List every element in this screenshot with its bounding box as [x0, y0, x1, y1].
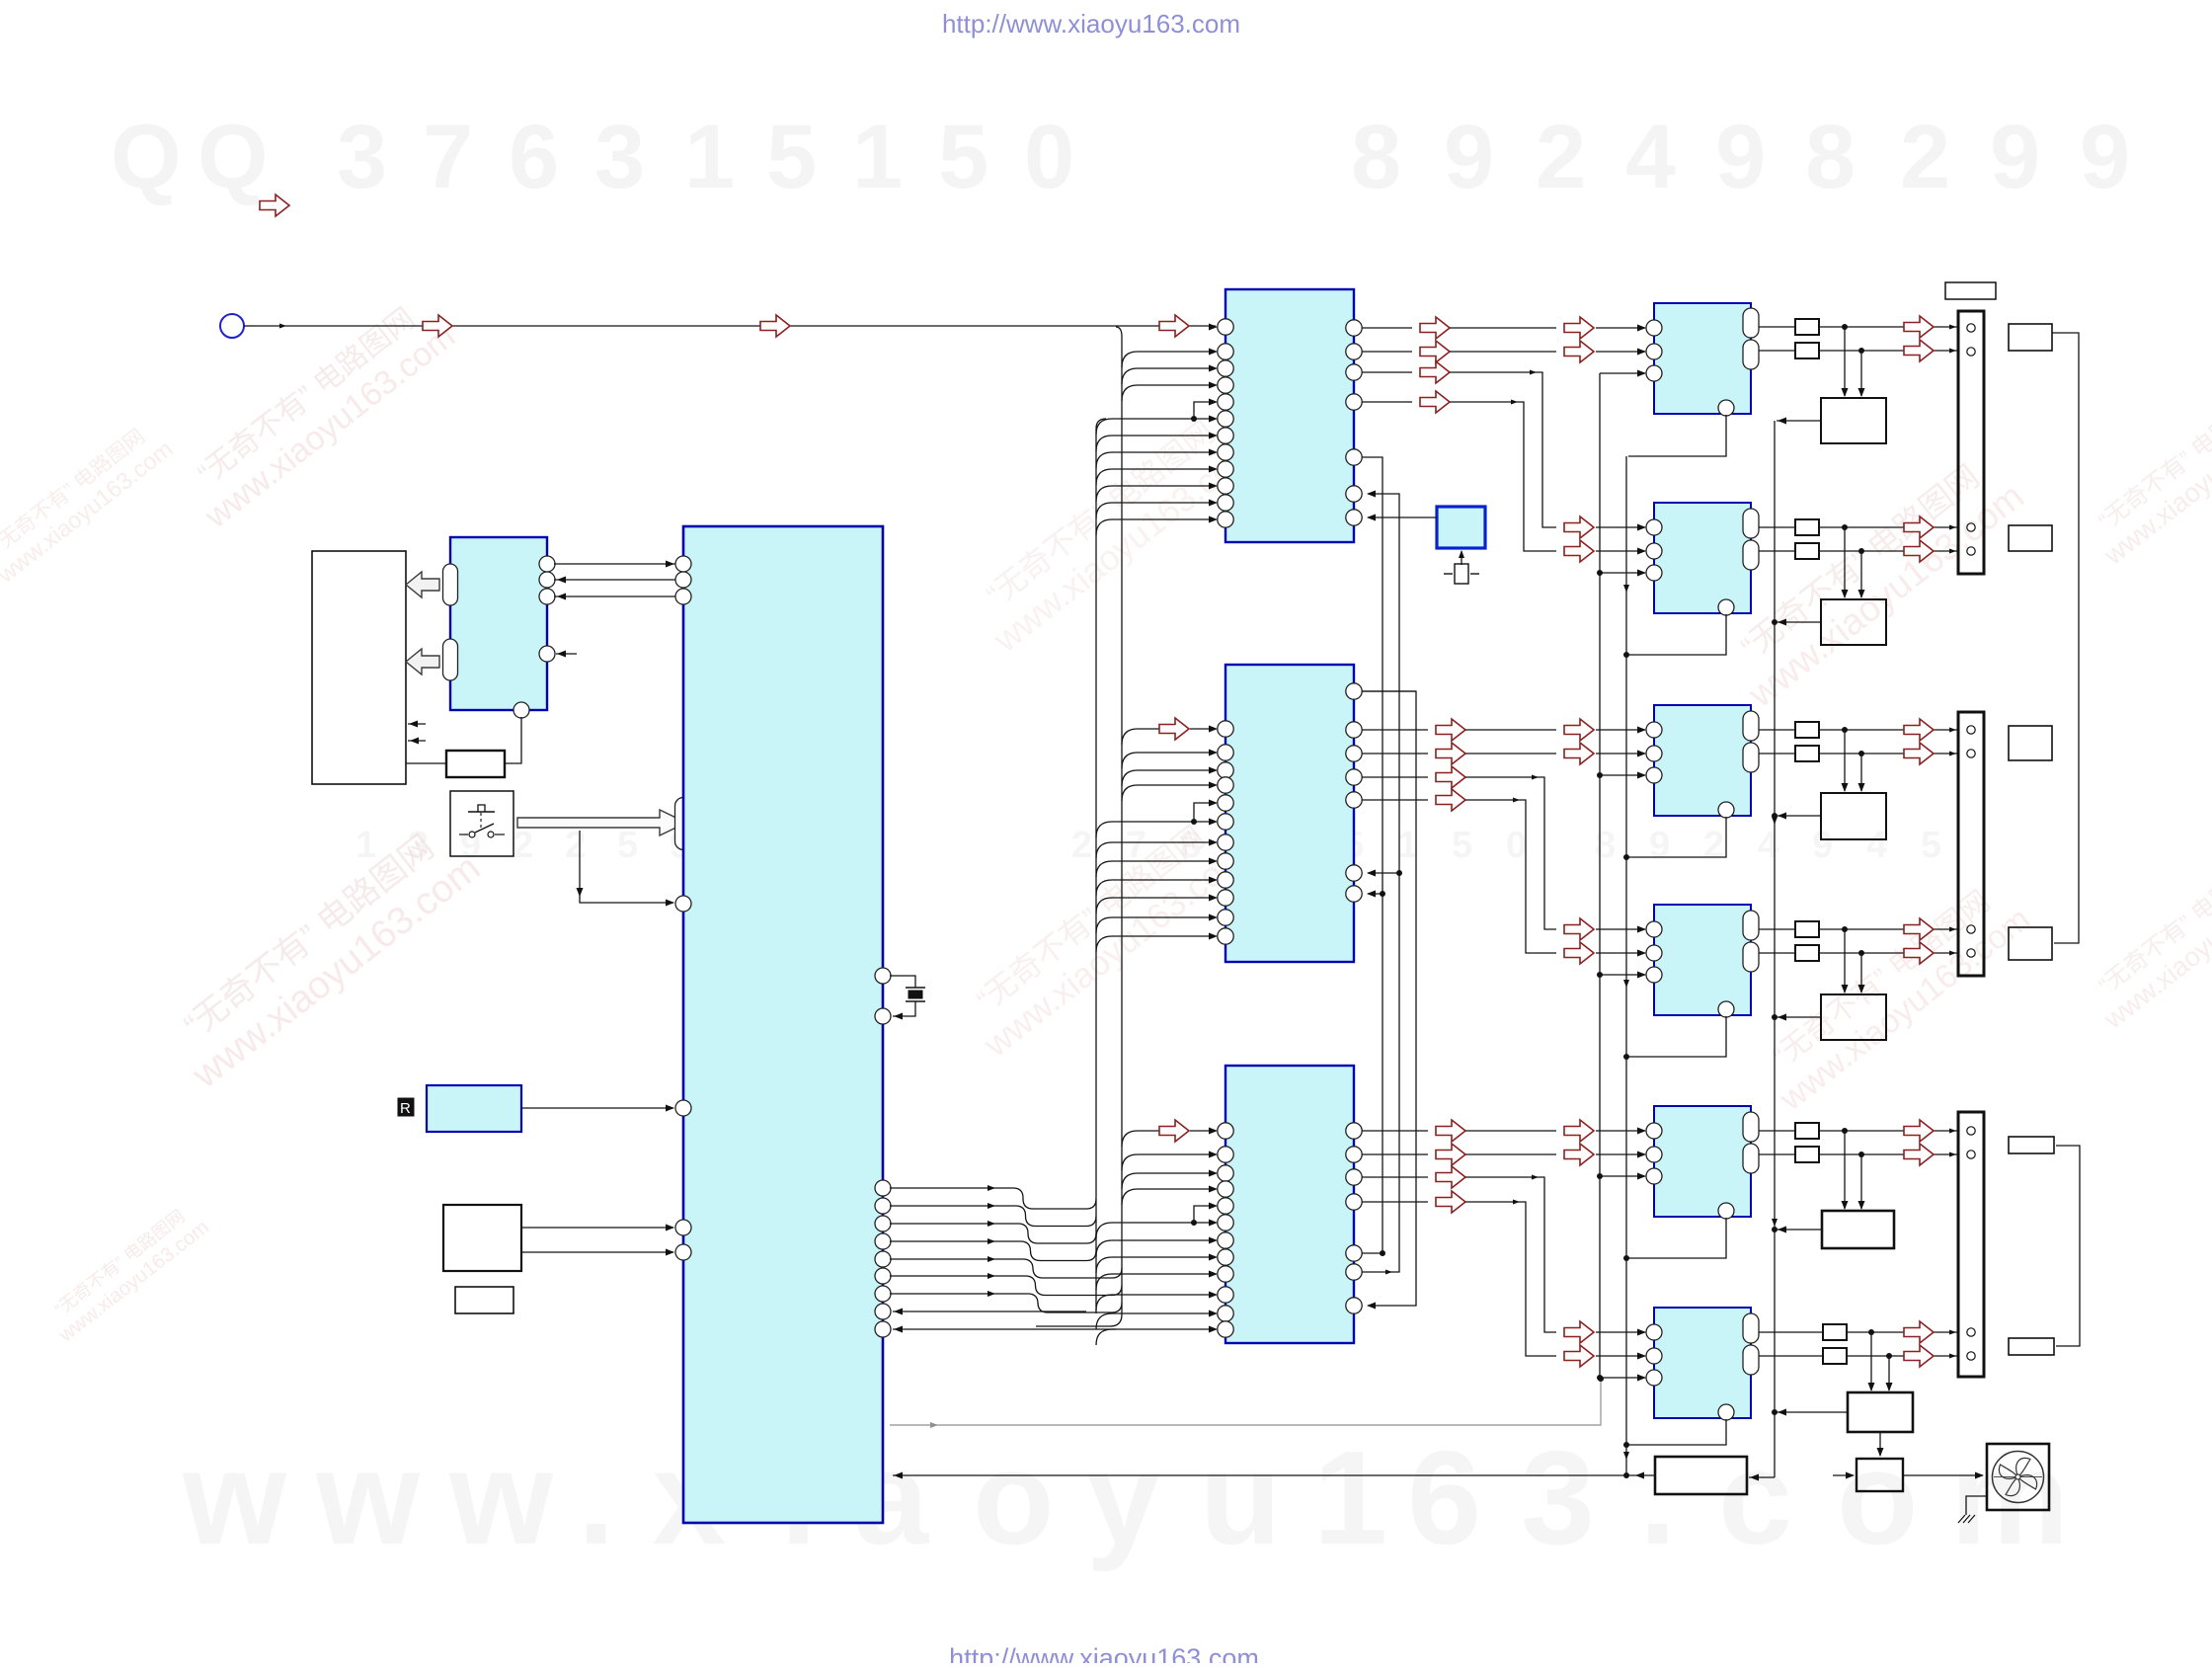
- IR receiver U3: [427, 1085, 521, 1132]
- wire ch4 out2b: [1819, 950, 1957, 956]
- LC filter ch5 a: [1795, 1123, 1819, 1139]
- ground: [1958, 1496, 1987, 1523]
- pin U2-5: [513, 702, 529, 718]
- PWM amp IC U9: [1654, 705, 1751, 816]
- arrow ch6 conn2: [1904, 1345, 1934, 1367]
- wire A out1: [1362, 317, 1556, 339]
- pin U9 out1: [1743, 711, 1759, 741]
- svg-text:1: 1: [355, 825, 376, 866]
- arrow ch2 in1: [1564, 516, 1594, 538]
- wire U2 to U1 data: [554, 561, 676, 568]
- wire key branch: [577, 831, 675, 907]
- svg-text:5: 5: [766, 107, 817, 207]
- LC filter ch6 b: [1823, 1348, 1847, 1364]
- wire ch4 out2a: [1759, 952, 1795, 954]
- bus riser B: [1116, 327, 1122, 1314]
- wire ch1 mute: [1600, 370, 1646, 377]
- wire fanctl to fan: [1903, 1472, 1984, 1479]
- wire ch6 sense2: [1886, 1356, 1893, 1391]
- arrow ch3 in1: [1564, 719, 1594, 741]
- wire ch5 sense1: [1842, 1131, 1849, 1210]
- svg-text:1: 1: [1397, 825, 1418, 866]
- svg-text:9: 9: [2080, 107, 2130, 207]
- audio DSP U6: [1225, 1066, 1354, 1343]
- wire ch5 mute: [1597, 1173, 1646, 1180]
- pins U4 left: [1218, 319, 1233, 527]
- wire ch5 in1: [1596, 1128, 1646, 1135]
- pin U9 out2: [1743, 743, 1759, 772]
- key command arrow: [517, 810, 686, 835]
- wire ch6 in2: [1596, 1353, 1646, 1360]
- arrow ch1 in2: [1564, 341, 1594, 362]
- wire ch5 in2: [1596, 1152, 1646, 1158]
- pins CN2: [1967, 726, 1975, 957]
- wire L-stub: [1191, 800, 1218, 826]
- svg-text:0: 0: [1506, 825, 1527, 866]
- pin U8 out1: [1743, 509, 1759, 538]
- LC filter ch1 b: [1795, 343, 1819, 358]
- wire relay2 ctl: [1772, 619, 1821, 626]
- PWM amp IC U7: [1654, 303, 1751, 414]
- bus relay collect: [1772, 421, 1777, 1477]
- wire ch6 out2b: [1847, 1353, 1957, 1359]
- svg-text:2: 2: [565, 825, 586, 866]
- wire ch3 mute: [1597, 772, 1646, 779]
- pin U1 L2: [675, 572, 691, 588]
- svg-text:1: 1: [1313, 1423, 1387, 1572]
- sub board S2: [455, 1287, 513, 1313]
- pin U1 bus in1: [875, 1304, 891, 1319]
- wire relay3 ctl: [1772, 813, 1821, 820]
- bus mute line: [1599, 373, 1601, 1378]
- pin U1 bus in2: [875, 1321, 891, 1337]
- svg-text:9: 9: [1990, 107, 2040, 207]
- svg-text:w: w: [448, 1423, 554, 1572]
- connector CN2: [1958, 712, 1984, 976]
- wire A out4: [1362, 391, 1556, 551]
- interface IC U2: [450, 537, 547, 710]
- speaker SP6: [2009, 1338, 2054, 1355]
- wire ch6 out2a: [1759, 1355, 1823, 1357]
- svg-text:5: 5: [1921, 825, 1941, 866]
- pin U11 out2: [1743, 1144, 1759, 1173]
- LC filter ch3 a: [1795, 722, 1819, 738]
- svg-text:4: 4: [1625, 107, 1676, 207]
- wire ch1 gnd: [1628, 415, 1726, 456]
- pins U1 data bus: [875, 1180, 891, 1302]
- wire ch1 out2b: [1819, 348, 1957, 354]
- arrow ch5 conn1: [1904, 1120, 1934, 1142]
- svg-text:w: w: [315, 1423, 421, 1572]
- wire C fb1: [1362, 1250, 1385, 1256]
- stub display in 1: [408, 721, 426, 728]
- wire ch1 out2a: [1759, 350, 1795, 352]
- svg-text:Q: Q: [197, 107, 269, 207]
- wire U1 to U2 data: [554, 577, 676, 584]
- arrow ch6 in1: [1564, 1321, 1594, 1343]
- wire B out5: [1362, 789, 1556, 953]
- wire ch6 gnd: [1623, 1419, 1726, 1448]
- wire ch4 gnd: [1623, 1016, 1726, 1060]
- LC filter ch3 b: [1795, 746, 1819, 761]
- arrow ch1 conn2: [1904, 340, 1934, 361]
- arrow ch3 conn2: [1904, 743, 1934, 764]
- arrow ch6 in2: [1564, 1345, 1594, 1367]
- arrow ch4 conn2: [1904, 942, 1934, 964]
- protection relay RY1: [1821, 398, 1886, 443]
- wire ch1 out1a: [1759, 326, 1795, 328]
- LC filter ch5 b: [1795, 1147, 1819, 1162]
- wire key col: [521, 1249, 674, 1256]
- pin U1 key pill: [675, 798, 692, 850]
- pin A1 arrowhead: [1209, 324, 1218, 331]
- wire ch6 sense1: [1868, 1332, 1875, 1391]
- wire ch3 sense1: [1842, 730, 1849, 792]
- pins U4 right: [1346, 320, 1362, 525]
- pin U10 out2: [1743, 942, 1759, 972]
- pin U11 gnd: [1718, 1203, 1734, 1219]
- LC filter ch2 a: [1795, 519, 1819, 535]
- pins U9 in: [1646, 722, 1662, 783]
- LC filter ch4 a: [1795, 921, 1819, 937]
- resistor R1: [446, 751, 505, 777]
- pin U10 out1: [1743, 911, 1759, 940]
- wire ch3 gnd: [1623, 817, 1726, 860]
- wire ch2 out1b: [1819, 524, 1957, 530]
- protection relay RY2: [1821, 599, 1886, 645]
- pin U12 gnd: [1718, 1404, 1734, 1420]
- svg-text:7: 7: [423, 107, 473, 207]
- svg-text:http://www.xiaoyu163.com: http://www.xiaoyu163.com: [949, 1643, 1259, 1663]
- LC filter ch1 a: [1795, 319, 1819, 335]
- pins U7 in: [1646, 320, 1662, 381]
- wire fanctl in: [1833, 1472, 1855, 1479]
- arrow ch2 conn1: [1904, 516, 1934, 538]
- IR badge: [398, 1098, 414, 1117]
- wire ch6 out1b: [1847, 1329, 1957, 1335]
- svg-text:9: 9: [1715, 107, 1766, 207]
- fan controller Q1: [1856, 1459, 1903, 1491]
- pin U8 out2: [1743, 540, 1759, 570]
- signal-flow arrow: [1159, 315, 1189, 337]
- arrow ch2 in2: [1564, 540, 1594, 562]
- pin U1 X2: [875, 1008, 891, 1024]
- pin U8 gnd: [1718, 599, 1734, 615]
- pin U2-1: [539, 556, 555, 572]
- wire relay6 ctl: [1772, 1409, 1848, 1416]
- bus fb2: [1362, 491, 1402, 1275]
- bus fb3: [1362, 691, 1416, 1310]
- svg-text:9: 9: [1812, 825, 1833, 866]
- clock oscillator X2: [1437, 507, 1485, 548]
- wire ch2 in2: [1596, 548, 1646, 555]
- svg-text:5: 5: [617, 825, 638, 866]
- wire B out1: [1362, 690, 1416, 692]
- wire key row: [521, 1225, 674, 1231]
- pin U7 gnd: [1718, 400, 1734, 416]
- wire ch3 sense2: [1858, 754, 1865, 792]
- wire U1 to PS1: [893, 1472, 1655, 1479]
- wire ch2 in1: [1596, 524, 1646, 531]
- connector label box: [1945, 282, 1996, 299]
- input jack J1: [220, 314, 255, 338]
- wire bus bottom: [1036, 1314, 1122, 1326]
- svg-text:4: 4: [1758, 825, 1778, 866]
- wire R1 to display: [406, 762, 446, 764]
- pin U12 out2: [1743, 1345, 1759, 1375]
- wire X2 to A: [1367, 515, 1437, 521]
- arrow ch3 conn1: [1904, 719, 1934, 741]
- pin U2-4: [539, 646, 555, 662]
- speaker SP2: [2009, 525, 2052, 551]
- svg-text:6: 6: [1407, 1423, 1481, 1572]
- svg-text:1: 1: [684, 107, 735, 207]
- PWM amp IC U12: [1654, 1308, 1751, 1418]
- wire B out4: [1362, 766, 1556, 929]
- svg-text:Q: Q: [111, 107, 182, 207]
- wire ch3 out2a: [1759, 753, 1795, 755]
- wire B out3: [1362, 743, 1556, 764]
- wire ch1 sense2: [1858, 351, 1865, 397]
- svg-text:o: o: [973, 1423, 1054, 1572]
- wire L-stub: [1191, 399, 1218, 423]
- wire ch5 sense2: [1858, 1154, 1865, 1210]
- arrow ch1 in1: [1564, 317, 1594, 339]
- PWM amp IC U8: [1654, 503, 1751, 613]
- pin U7 out1: [1743, 308, 1759, 338]
- wire A out3: [1362, 361, 1556, 527]
- wire ch1 sense1: [1842, 327, 1849, 397]
- wire ch4 in2: [1596, 950, 1646, 957]
- svg-text:8: 8: [1595, 825, 1616, 866]
- wire A out2: [1362, 341, 1556, 362]
- speaker SP1: [2009, 324, 2052, 351]
- pin U2 left bus 1: [443, 564, 458, 605]
- pins CN3: [1967, 1127, 1975, 1360]
- svg-text:R: R: [400, 1100, 411, 1117]
- audio DSP U4: [1225, 289, 1354, 542]
- wire C out4: [1362, 1191, 1556, 1356]
- svg-text:6: 6: [509, 107, 559, 207]
- keyboard unit S1: [443, 1205, 521, 1271]
- bus arrow to display: [406, 649, 439, 675]
- wire ch4 out1a: [1759, 928, 1795, 930]
- svg-text:o: o: [1837, 1423, 1918, 1572]
- display unit DSP1: [312, 551, 406, 784]
- arrow ch4 conn1: [1904, 918, 1934, 940]
- power key switch SW1: [450, 791, 513, 856]
- signal-flow arrow: [760, 315, 790, 337]
- wire C out3: [1362, 1166, 1556, 1332]
- svg-text:c: c: [1718, 1423, 1792, 1572]
- wire ch2 sense1: [1842, 527, 1849, 598]
- protection relay RY5: [1822, 1211, 1894, 1248]
- audio DSP U5: [1225, 665, 1354, 962]
- svg-text:0: 0: [1024, 107, 1074, 207]
- svg-text:4: 4: [1866, 825, 1887, 866]
- wire ch2 out2a: [1759, 550, 1795, 552]
- LC filter ch6 a: [1823, 1324, 1847, 1340]
- wire ch4 sense2: [1858, 953, 1865, 993]
- pin U1 L7: [675, 1244, 691, 1260]
- wire relay4 ctl: [1772, 1014, 1821, 1021]
- wire ch1 out1b: [1819, 324, 1957, 330]
- speaker SP3: [2009, 726, 2052, 760]
- wire bus return 2: [893, 1326, 1116, 1333]
- cooling fan M1: [1987, 1444, 2049, 1510]
- pin U11 out1: [1743, 1112, 1759, 1142]
- wire ch2 sense2: [1858, 551, 1865, 598]
- wire ch3 out1b: [1819, 727, 1957, 733]
- bus riser A: [1096, 419, 1106, 1313]
- pin U9 gnd: [1718, 802, 1734, 818]
- crystal X1 circuit: [890, 976, 925, 1020]
- wire DSP-B clock in: [1122, 718, 1218, 745]
- LC filter ch4 b: [1795, 945, 1819, 961]
- wire C out2: [1362, 1144, 1556, 1165]
- pin U1 L1: [675, 556, 691, 572]
- arrow ch4 in2: [1564, 942, 1594, 964]
- wire ch5 gnd: [1623, 1218, 1726, 1261]
- wire relay1 ctl: [1777, 418, 1821, 425]
- wire ch4 out1b: [1819, 926, 1957, 932]
- svg-text:9: 9: [1649, 825, 1670, 866]
- wire ch2 out2b: [1819, 548, 1957, 554]
- pins U11 in: [1646, 1123, 1662, 1184]
- speaker SP4: [2009, 927, 2052, 960]
- wire B out2: [1362, 719, 1556, 741]
- svg-text:http://www.xiaoyu163.com: http://www.xiaoyu163.com: [942, 9, 1240, 39]
- svg-text:.: .: [578, 1423, 615, 1572]
- arrow ch3 in2: [1564, 743, 1594, 764]
- wire ch3 out1a: [1759, 729, 1795, 731]
- svg-text:y: y: [1086, 1423, 1160, 1572]
- arrow ch4 in1: [1564, 918, 1594, 940]
- pin U1 L5: [675, 1100, 691, 1116]
- wire ch4 in1: [1596, 926, 1646, 933]
- wire U1 to U2 clock: [554, 594, 676, 600]
- bus gnd collect: [1623, 456, 1629, 1478]
- svg-text:w: w: [182, 1423, 287, 1572]
- svg-text:u: u: [1200, 1423, 1281, 1572]
- pins U5 right: [1346, 683, 1362, 902]
- wire input signal: [255, 324, 1216, 329]
- wire L-stub: [1191, 1203, 1218, 1227]
- system control IC U1: [683, 526, 883, 1523]
- wire IR out: [521, 1105, 674, 1112]
- wire ch2 mute: [1597, 570, 1646, 577]
- wire bus bundle: [890, 1185, 1122, 1312]
- arrow ch5 in2: [1564, 1144, 1594, 1165]
- PWM amp IC U10: [1654, 905, 1751, 1015]
- connector CN3: [1958, 1112, 1984, 1377]
- stub U2 enable: [556, 651, 577, 658]
- pin U2-2: [539, 572, 555, 588]
- bracket speakers A: [2052, 333, 2079, 943]
- signal-flow arrow: [423, 315, 452, 337]
- wire ch4 mute: [1597, 972, 1646, 979]
- wire ch6 mute: [1597, 1375, 1646, 1382]
- pins U8 in: [1646, 519, 1662, 581]
- svg-text:5: 5: [938, 107, 988, 207]
- pin U10 gnd: [1718, 1001, 1734, 1017]
- svg-text:2: 2: [1536, 107, 1586, 207]
- svg-text:5: 5: [1452, 825, 1472, 866]
- svg-text:2: 2: [1703, 825, 1724, 866]
- arrow ch5 conn2: [1904, 1144, 1934, 1165]
- PWM amp IC U11: [1654, 1106, 1751, 1217]
- bus fb1: [1362, 457, 1385, 1253]
- LC filter ch2 b: [1795, 543, 1819, 559]
- svg-text:3: 3: [337, 107, 387, 207]
- signal-flow arrow: [260, 195, 289, 216]
- svg-text:8: 8: [1351, 107, 1401, 207]
- wire ch6 out1a: [1759, 1331, 1823, 1333]
- wire ch5 out1b: [1819, 1128, 1957, 1134]
- svg-text:1: 1: [852, 107, 903, 207]
- power supply unit PS1: [1655, 1457, 1747, 1494]
- arrow ch5 in1: [1564, 1120, 1594, 1142]
- pin U1 L3: [675, 589, 691, 604]
- svg-text:2: 2: [1900, 107, 1950, 207]
- speaker SP5: [2009, 1137, 2054, 1153]
- pins U12 in: [1646, 1324, 1662, 1386]
- wire ch2 out1a: [1759, 526, 1795, 528]
- wire DSP-C clock in: [1122, 1120, 1218, 1147]
- protection relay RY4: [1821, 994, 1886, 1040]
- wire ch6 in1: [1596, 1329, 1646, 1336]
- connector CN1: [1958, 311, 1984, 574]
- pin U7 out2: [1743, 340, 1759, 369]
- wire ch5 out2a: [1759, 1153, 1795, 1155]
- pins U6 right: [1346, 1123, 1362, 1313]
- wire ch4 sense1: [1842, 929, 1849, 993]
- pins CN1: [1967, 324, 1975, 555]
- pin U1 X1: [875, 968, 891, 984]
- wire mute feed: [890, 1376, 1604, 1428]
- wire ch3 in2: [1596, 751, 1646, 757]
- svg-text:9: 9: [1444, 107, 1494, 207]
- wire ch5 out1a: [1759, 1130, 1795, 1132]
- bracket speakers B: [2056, 1146, 2080, 1346]
- pin U12 out1: [1743, 1313, 1759, 1343]
- wire ch2 gnd: [1623, 614, 1726, 658]
- pin U1 L4: [675, 896, 691, 912]
- pins U10 in: [1646, 921, 1662, 983]
- pins U5 left: [1218, 721, 1233, 944]
- wire C out1: [1362, 1120, 1556, 1142]
- svg-text:2: 2: [513, 825, 533, 866]
- wire relay5 ctl: [1772, 1227, 1822, 1233]
- svg-text:2: 2: [1071, 825, 1092, 866]
- svg-text:3: 3: [594, 107, 645, 207]
- wire ch5 out2b: [1819, 1152, 1957, 1157]
- crystal X2 element: [1444, 550, 1479, 584]
- svg-text:8: 8: [1805, 107, 1856, 207]
- protection relay RY6: [1848, 1392, 1913, 1432]
- wire ch3 out2b: [1819, 751, 1957, 756]
- bus arrow to display: [406, 572, 439, 597]
- wire ch1 in2: [1596, 349, 1646, 356]
- arrow ch2 conn2: [1904, 540, 1934, 562]
- pin U2-3: [539, 589, 555, 604]
- arrow ch6 conn1: [1904, 1321, 1934, 1343]
- wire ch3 in1: [1596, 727, 1646, 734]
- stub display in 2: [408, 738, 426, 745]
- wire relay6 to fanctl: [1877, 1432, 1884, 1457]
- arrow ch1 conn1: [1904, 316, 1934, 338]
- wire U2 pin5 to R1: [505, 717, 521, 763]
